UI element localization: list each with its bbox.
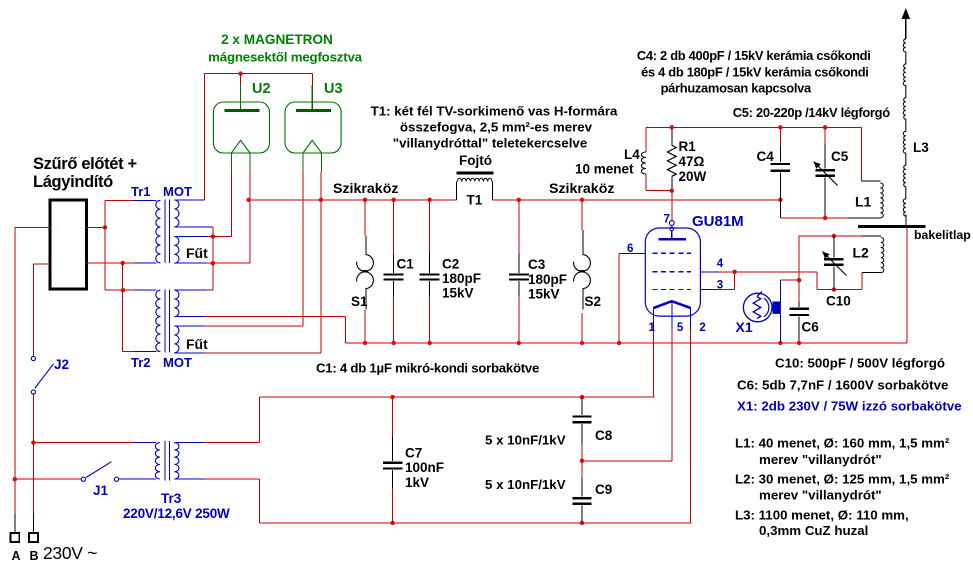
node: C1 top xyxy=(392,198,396,202)
label: C3 180pF 15kV xyxy=(528,257,567,302)
inductor L4 xyxy=(641,127,671,190)
bakelit plate xyxy=(858,225,925,228)
node: C3 bottom xyxy=(517,341,521,345)
svg-text:C8: C8 xyxy=(595,428,613,443)
wire: filter lower output xyxy=(87,262,123,264)
node: R1 top junction xyxy=(670,125,674,129)
svg-text:100nF: 100nF xyxy=(405,460,444,475)
wire: Tr2 HV bottom line xyxy=(204,316,345,318)
label: pin 4 xyxy=(717,258,724,270)
node: C8-C9 junction xyxy=(580,459,584,463)
svg-text:15kV: 15kV xyxy=(442,286,474,301)
label: C6 explanation xyxy=(737,378,948,393)
wire: Tr2 HV line drop to bus xyxy=(344,317,346,343)
magnetron U2 xyxy=(213,81,270,172)
label: X1 xyxy=(736,319,753,335)
wire: phase B input xyxy=(33,263,50,265)
svg-text:Tr1: Tr1 xyxy=(131,184,151,199)
capacitor C8 xyxy=(572,397,591,461)
label: C4 explanation xyxy=(637,48,871,96)
svg-text:20W: 20W xyxy=(679,169,707,184)
transformer Tr3 secondary wires xyxy=(174,443,203,479)
svg-text:Tr3: Tr3 xyxy=(161,491,182,506)
wire: heater node to U2 left leg xyxy=(213,235,232,237)
label: T1 xyxy=(467,193,483,208)
svg-text:C6: C6 xyxy=(802,320,820,335)
tube GU81M grid g3 (pin 6 dashes) xyxy=(653,252,692,254)
svg-text:X1: X1 xyxy=(736,319,753,335)
svg-text:S2: S2 xyxy=(585,294,602,309)
svg-text:J1: J1 xyxy=(93,483,109,498)
node: C7 bottom xyxy=(390,521,394,525)
svg-text:R1: R1 xyxy=(679,139,697,154)
svg-text:MOT: MOT xyxy=(163,355,192,370)
svg-text:C4: 2 db 400pF / 15kV kerámia: C4: 2 db 400pF / 15kV kerámia csőkondi xyxy=(637,48,871,63)
svg-text:U2: U2 xyxy=(252,81,271,97)
wire: grid lead to pin 7 xyxy=(671,191,673,221)
label: S1 xyxy=(351,294,368,309)
svg-text:C1: C1 xyxy=(397,257,415,272)
svg-text:T1: T1 xyxy=(467,193,483,208)
svg-text:J2: J2 xyxy=(54,357,69,372)
svg-text:Lágyindító: Lágyindító xyxy=(33,173,113,191)
label: Fojto xyxy=(459,153,492,168)
wire: U3 left filament leg xyxy=(302,172,304,326)
capacitor C9 xyxy=(572,461,591,523)
svg-text:L2: 30 menet, Ø: 125 mm, 1,5 m: L2: 30 menet, Ø: 125 mm, 1,5 mm² xyxy=(735,472,950,487)
label: L3 data xyxy=(735,508,909,539)
svg-text:és 4 db 180pF / 15kV kerámia: és 4 db 180pF / 15kV kerámia csőkondi xyxy=(641,64,869,79)
node: U3 right leg on bus xyxy=(319,198,323,202)
label: L3 xyxy=(913,140,929,155)
label: J1 xyxy=(93,483,109,498)
node: C1 bottom xyxy=(392,341,396,345)
svg-text:C6: 5db 7,7nF / 1600V sorbaköt: C6: 5db 7,7nF / 1600V sorbakötve xyxy=(737,378,948,393)
svg-text:Szikraköz: Szikraköz xyxy=(333,181,398,197)
svg-text:180pF: 180pF xyxy=(442,271,481,286)
wire: U3 anode lead (red part) xyxy=(312,74,314,85)
svg-text:Fűt: Fűt xyxy=(186,336,208,352)
label: L2 data xyxy=(735,472,950,503)
tube GU81M pin 1 lead xyxy=(649,308,656,334)
terminal A xyxy=(10,513,20,563)
svg-text:merev "villanydrót": merev "villanydrót" xyxy=(759,452,882,467)
node: J1 feed junction xyxy=(13,477,17,481)
label: Szikrakoz right xyxy=(549,181,614,197)
node: Tr1 HV bottom junction xyxy=(211,234,215,238)
wire: phase A vertical xyxy=(14,228,16,514)
node: C3 top xyxy=(517,198,521,202)
svg-text:C3: C3 xyxy=(528,257,546,272)
node: C7 top xyxy=(390,395,394,399)
svg-text:4: 4 xyxy=(717,258,724,270)
node: S1 bottom xyxy=(363,341,367,345)
node: bus start at U2 leg xyxy=(247,198,251,202)
transformer Tr3 primary top wire xyxy=(134,442,157,444)
svg-text:L1: 40 menet, Ø: 160 mm, 1,5 m: L1: 40 menet, Ø: 160 mm, 1,5 mm² xyxy=(735,436,950,451)
wire: main bus right segment xyxy=(493,199,781,201)
svg-text:L3: L3 xyxy=(913,140,929,155)
svg-text:T1: két fél TV-sorkimenő vas H: T1: két fél TV-sorkimenő vas H-formára xyxy=(371,104,618,119)
tube GU81M pin 4 lead xyxy=(700,271,718,273)
label: C10 explanation xyxy=(775,356,945,371)
wire: J1 feed xyxy=(15,478,82,480)
inductor L2 xyxy=(862,236,884,273)
wire: magnetron anode top bus xyxy=(205,73,313,75)
transformer Tr2 HV bottom wire xyxy=(174,316,204,318)
tube GU81M pin 2 lead xyxy=(691,308,706,334)
svg-text:2: 2 xyxy=(699,322,705,334)
node: pin 3-4 junction xyxy=(732,270,736,274)
node: S2 bottom xyxy=(580,341,584,345)
node: filter upper node xyxy=(103,225,107,229)
node: grid6 bottom xyxy=(617,341,621,345)
svg-text:C1: 4 db 1µF mikró-kondi sorba: C1: 4 db 1µF mikró-kondi sorbakötve xyxy=(316,361,539,376)
svg-text:7: 7 xyxy=(664,214,670,226)
svg-text:párhuzamosan kapcsolva: párhuzamosan kapcsolva xyxy=(661,81,812,96)
wire: heater loop top line xyxy=(260,396,655,398)
wire: X1 tee xyxy=(781,279,800,281)
transformer Tr2 HV winding xyxy=(174,290,179,316)
label: S2 xyxy=(585,294,602,309)
svg-text:X1: 2db 230V / 75W izzó sorbak: X1: 2db 230V / 75W izzó sorbakötve xyxy=(737,399,962,414)
label: C5 explanation xyxy=(733,105,890,120)
wire: filter node riser xyxy=(104,200,106,227)
transformer Tr2 HV top wire xyxy=(174,289,213,291)
node: S2 top xyxy=(580,198,584,202)
node: R1 bottom junction xyxy=(670,189,674,193)
node: C8 top xyxy=(580,395,584,399)
node: X1 bottom xyxy=(778,341,782,345)
transformer Tr2 Fut top wire xyxy=(174,325,204,327)
svg-text:mágnesektől megfosztva: mágnesektől megfosztva xyxy=(208,50,363,65)
switch J1 xyxy=(81,462,126,482)
label: L1 xyxy=(855,194,872,210)
wire: Tr2 Fut bottom line to U3 right leg xyxy=(204,352,321,354)
label: Tr3 rating xyxy=(123,506,230,521)
label: C5 xyxy=(831,149,849,164)
wire: Tr3 secondary top xyxy=(204,442,260,444)
svg-text:S1: S1 xyxy=(351,294,368,309)
wire: L2 rail drop xyxy=(798,236,800,302)
label: C4 xyxy=(757,149,775,164)
switch J2 xyxy=(31,356,53,394)
transformer Tr2 Fut winding xyxy=(174,326,179,353)
tube GU81M pin 6 lead xyxy=(622,252,646,254)
transformer Tr1 HV bottom wire xyxy=(174,226,213,228)
filter box (Szuro elotet) xyxy=(50,200,87,289)
node: C10 bottom xyxy=(832,287,836,291)
node: S1 top xyxy=(363,198,367,202)
label: Tr2 MOT xyxy=(131,355,192,370)
svg-text:C5: 20-220p /14kV légforgó: C5: 20-220p /14kV légforgó xyxy=(733,105,890,120)
wire: heater mid line xyxy=(582,460,672,462)
label: pin 3 xyxy=(717,280,723,292)
inductor L3 xyxy=(903,39,906,226)
node: C6 bottom xyxy=(797,341,801,345)
node: primary series junction xyxy=(121,261,125,265)
capacitor C7 xyxy=(383,397,402,523)
label: C7 100nF 1kV xyxy=(405,446,444,491)
wire: phase B vertical lower xyxy=(32,393,34,513)
svg-text:C4: C4 xyxy=(757,149,775,164)
wire: pin 2 drop xyxy=(690,330,692,523)
transformer Tr1 HV top wire xyxy=(174,199,204,201)
label: 5x10nF upper xyxy=(485,433,566,448)
wire: drop to Tr2 primary bottom xyxy=(123,351,134,353)
antenna arrow xyxy=(902,8,911,39)
capacitor C1 xyxy=(384,200,404,343)
transformer Tr3 secondary winding xyxy=(174,443,179,479)
svg-text:47Ω: 47Ω xyxy=(679,154,705,169)
svg-text:C2: C2 xyxy=(442,257,459,272)
svg-text:Tr2: Tr2 xyxy=(131,355,151,370)
wire: U2 right filament leg xyxy=(249,172,251,263)
transformer Tr1 Fut winding xyxy=(174,237,179,264)
wire: bus right riser to bakelit xyxy=(906,228,908,343)
svg-text:U3: U3 xyxy=(324,81,343,97)
wire: L2 top rail xyxy=(799,235,863,237)
label: Tr1 MOT xyxy=(131,184,192,199)
label: T1 explanation xyxy=(371,104,618,151)
svg-text:A: A xyxy=(12,549,21,563)
svg-text:bakelitlap: bakelitlap xyxy=(914,228,971,242)
node: Tr3 feed junction xyxy=(31,440,35,444)
svg-text:MOT: MOT xyxy=(163,184,192,199)
label: L1 data xyxy=(735,436,950,468)
svg-text:5 x 10nF/1kV: 5 x 10nF/1kV xyxy=(485,477,566,492)
svg-text:C10: 500pF / 500V légforgó: C10: 500pF / 500V légforgó xyxy=(775,356,945,371)
svg-text:GU81M: GU81M xyxy=(692,213,744,230)
label: Szikrakoz left xyxy=(333,181,398,197)
svg-text:L1: L1 xyxy=(855,194,872,210)
label: L2 xyxy=(853,245,870,261)
wire: pin 6 drop to bus xyxy=(619,253,621,343)
node: C10 top xyxy=(832,234,836,238)
node: C2 top xyxy=(428,198,432,202)
transformer Tr1 Fut bottom wire xyxy=(174,262,250,264)
capacitor C5 (variable) xyxy=(814,127,838,218)
transformer Tr1 HV secondary winding xyxy=(174,200,179,227)
wire: drop to Tr2 primary top xyxy=(105,289,134,291)
label: Tr3 xyxy=(161,491,182,506)
wire: grid top rail xyxy=(646,126,862,128)
resistor R1 xyxy=(667,129,676,191)
wire: pin 1 drop xyxy=(653,330,655,397)
wire: phase B vertical xyxy=(32,264,34,356)
svg-text:5 x 10nF/1kV: 5 x 10nF/1kV xyxy=(485,433,566,448)
tube GU81M grid g2 (pin 4 dashes) xyxy=(653,271,692,273)
wire: U3 right filament leg xyxy=(320,172,322,353)
node: crossing junction xyxy=(121,288,125,292)
wire: Tr3 secondary bottom xyxy=(204,478,260,480)
svg-text:L3: 1100 menet, Ø: 110 mm,: L3: 1100 menet, Ø: 110 mm, xyxy=(735,508,909,523)
transformer Tr1 primary bottom wire xyxy=(123,262,157,264)
capacitor C4 xyxy=(771,127,790,218)
wire: pin3-pin4 tie xyxy=(719,272,735,290)
transformer Tr1 primary winding xyxy=(156,200,161,263)
inductor L1 xyxy=(848,181,883,218)
wire: tank bottom rail xyxy=(780,217,848,219)
svg-text:1kV: 1kV xyxy=(405,475,429,490)
wire: pin 5 drop xyxy=(671,330,673,461)
node: C4 top xyxy=(778,125,782,129)
node: Fut bottom junction xyxy=(211,261,215,265)
svg-text:5: 5 xyxy=(677,322,684,334)
spark gap S2 xyxy=(574,200,591,343)
wire: phase A input xyxy=(15,227,50,229)
wire: main bus left segment xyxy=(249,199,457,201)
svg-text:"villanydróttal" teletekercsel: "villanydróttal" teletekercselve xyxy=(393,136,587,151)
transformer Tr1 primary wire top xyxy=(105,199,157,201)
magnetron U3 xyxy=(285,81,343,172)
wire: Tr1 HV bottom drop xyxy=(212,227,214,290)
label: C6 xyxy=(802,320,820,335)
label: bakelitlap xyxy=(914,228,971,242)
wire: heater loop bottom line xyxy=(260,522,692,524)
svg-text:220V/12,6V 250W: 220V/12,6V 250W xyxy=(123,506,230,521)
label: pin 6 xyxy=(627,243,633,255)
label: 5x10nF lower xyxy=(485,477,566,492)
transformer Tr1 Fut top wire xyxy=(174,236,213,238)
transformer Tr2 primary winding xyxy=(156,290,161,351)
tube GU81M envelope xyxy=(645,228,700,316)
svg-text:C9: C9 xyxy=(595,482,612,497)
wire: loop left bottom riser xyxy=(259,479,261,523)
label: L4 10 menet xyxy=(575,147,640,177)
label: R1 47ohm 20W xyxy=(679,139,707,184)
svg-text:B: B xyxy=(30,549,39,563)
capacitor C3 xyxy=(509,200,529,343)
wire: tank feed jog xyxy=(817,272,862,290)
label: Szuro elotet + Lagyindito xyxy=(33,155,137,191)
wire: pin4 to tank xyxy=(719,271,817,273)
transformer Tr2 primary bottom wire xyxy=(134,351,157,353)
label: C9 xyxy=(595,482,612,497)
svg-text:C7: C7 xyxy=(405,446,422,461)
capacitor C2 xyxy=(420,200,440,343)
tube GU81M pin 7 terminals xyxy=(664,214,675,231)
svg-text:L4: L4 xyxy=(624,147,640,162)
label: C1 explanation xyxy=(316,361,539,376)
transformer Tr3 primary winding xyxy=(155,443,160,479)
node: bus end at C4 leg xyxy=(778,198,782,202)
svg-text:Szűrő előtét +: Szűrő előtét + xyxy=(33,155,137,173)
tube GU81M cathode xyxy=(654,301,691,316)
label: X1 explanation xyxy=(737,399,962,414)
transformer Tr1 core xyxy=(165,200,170,264)
svg-text:Szikraköz: Szikraköz xyxy=(549,181,614,197)
wire: top rail corner drop xyxy=(861,127,863,181)
svg-text:180pF: 180pF xyxy=(528,272,567,287)
label: C1 xyxy=(397,257,415,272)
svg-text:Fűt: Fűt xyxy=(186,245,208,261)
node: U2 anode junction xyxy=(238,71,242,75)
svg-text:L2: L2 xyxy=(853,245,870,261)
wire: Tr2 Fut top line to U3 left leg xyxy=(204,325,303,327)
svg-text:2 x MAGNETRON: 2 x MAGNETRON xyxy=(221,32,333,47)
svg-text:0,3mm CuZ huzal: 0,3mm CuZ huzal xyxy=(759,523,868,538)
spark gap S1 xyxy=(357,200,374,343)
transformer Tr2 Fut bottom wire xyxy=(174,352,204,354)
choke T1 winding xyxy=(458,178,493,181)
svg-text:1: 1 xyxy=(649,322,656,334)
label: C8 xyxy=(595,428,613,443)
node: C5 bottom xyxy=(823,216,827,220)
svg-text:Fojtó: Fojtó xyxy=(459,153,492,168)
svg-text:15kV: 15kV xyxy=(528,287,560,302)
svg-text:merev "villanydrót": merev "villanydrót" xyxy=(759,488,882,503)
wire: filter node drop xyxy=(104,227,106,290)
choke T1 core bar xyxy=(457,172,494,175)
choke T1 right lead xyxy=(492,182,494,200)
transformer Tr2 primary top wire xyxy=(134,289,157,291)
label: 230V xyxy=(43,543,97,563)
tube GU81M grid g1 (pin 3 dashes) xyxy=(653,289,692,291)
choke T1 left lead xyxy=(455,182,457,200)
node: C2 bottom xyxy=(428,341,432,345)
terminal B xyxy=(29,513,39,563)
capacitor C10 (variable) xyxy=(822,236,846,290)
label: J2 xyxy=(54,357,69,372)
wire: mains to Tr3 primary top xyxy=(33,442,133,444)
wire: U2 anode lead (red part) xyxy=(240,74,242,85)
svg-text:C5: C5 xyxy=(831,149,849,164)
capacitor C6 xyxy=(789,302,809,344)
svg-text:C10: C10 xyxy=(826,294,851,309)
node: X1/C6 top node xyxy=(797,278,801,282)
lamp X1 xyxy=(743,280,781,343)
wire: loop left top riser xyxy=(259,397,261,443)
label: C10 xyxy=(826,294,851,309)
label: Fut (Tr1) xyxy=(186,245,208,261)
node: C5 top xyxy=(823,125,827,129)
node: C9 bottom xyxy=(580,521,584,525)
tube GU81M pin 5 lead xyxy=(672,316,684,334)
svg-text:10 menet: 10 menet xyxy=(575,162,634,177)
wire: primary series drop xyxy=(122,263,124,352)
label: GU81M xyxy=(692,213,744,230)
wire: U2 left filament leg xyxy=(230,172,232,236)
svg-text:6: 6 xyxy=(627,243,633,255)
svg-text:összefogva, 2,5 mm²-es merev: összefogva, 2,5 mm²-es merev xyxy=(400,120,593,135)
wire: bottom bus xyxy=(345,342,907,344)
green title 2 x MAGNETRON xyxy=(208,32,363,65)
tube GU81M anode xyxy=(659,231,687,240)
wire: filter upper output xyxy=(87,226,106,228)
transformer Tr3 primary bottom wire xyxy=(119,478,156,480)
label: C2 180pF 15kV xyxy=(442,257,481,301)
wire: HV riser left xyxy=(204,74,206,200)
transformer Tr2 core xyxy=(165,290,170,353)
label: Fut (Tr2) xyxy=(186,336,208,352)
tube GU81M pin 3 lead xyxy=(700,289,718,291)
transformer Tr3 core xyxy=(165,441,170,481)
svg-text:230V ~: 230V ~ xyxy=(43,543,97,563)
